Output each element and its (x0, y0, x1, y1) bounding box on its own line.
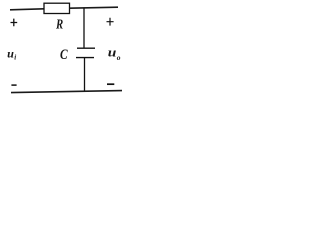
svg-text:u: u (7, 46, 14, 60)
svg-text:R: R (55, 16, 63, 31)
svg-text:C: C (60, 47, 68, 63)
svg-text:u: u (108, 45, 117, 60)
svg-text:o: o (117, 53, 121, 62)
svg-text:i: i (14, 54, 16, 62)
